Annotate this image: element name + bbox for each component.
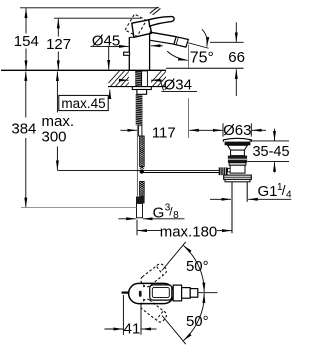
top view body capsule <box>129 283 174 303</box>
dashed lever rotated upper <box>139 262 168 288</box>
indicator slot <box>139 291 142 297</box>
pop-up rod stub (top view) <box>122 292 130 294</box>
label G 3/8 <box>119 218 136 220</box>
svg-text:max.45: max.45 <box>61 96 105 111</box>
dimension 35-45 <box>250 140 290 142</box>
faucet body right edge <box>149 25 151 71</box>
dimension 117 <box>120 129 137 131</box>
svg-text:Ø63: Ø63 <box>223 122 251 139</box>
rim reference line (66 bottom) <box>166 67 244 69</box>
svg-text:154: 154 <box>14 33 39 50</box>
rod junction dot <box>140 169 144 173</box>
svg-text:66: 66 <box>228 49 245 66</box>
hose end nut <box>136 197 145 204</box>
75 degree arc arrow upper <box>202 29 207 46</box>
deck bottom line <box>108 86 166 88</box>
reference arrow to deck <box>108 46 110 69</box>
lever (top view) <box>150 285 172 300</box>
spout axis extension <box>188 43 209 49</box>
spout bottom edge <box>150 40 174 44</box>
braided hose upper <box>140 136 145 169</box>
spout block (top view) <box>182 288 191 299</box>
svg-text:4: 4 <box>286 189 292 200</box>
deck hatching right <box>146 68 184 88</box>
lever grip (solid) <box>132 20 152 38</box>
waste locknut <box>225 179 250 181</box>
lever motion marks <box>150 7 158 13</box>
hose neck <box>139 125 142 136</box>
max.300 reference / pop-up rod upper line <box>57 169 218 171</box>
svg-text:G: G <box>153 204 165 221</box>
spout top edge <box>150 32 177 37</box>
lever grip raised (dashed) <box>125 14 147 36</box>
svg-text:max.: max. <box>42 113 75 130</box>
waste tailpipe <box>231 182 233 233</box>
svg-text:max.180: max.180 <box>160 223 218 240</box>
dimension 41 <box>122 295 124 335</box>
waste upper body <box>231 150 245 156</box>
shared arrow line 117 / diameter 63 <box>189 129 222 131</box>
extension line top of handle base <box>54 17 141 19</box>
swivel arc lower <box>184 293 205 340</box>
svg-text:41: 41 <box>124 321 141 338</box>
threaded stud through deck <box>135 71 141 87</box>
svg-text:35-45: 35-45 <box>252 144 289 160</box>
waste washer <box>224 175 252 179</box>
dimension 66 arrows <box>235 22 237 42</box>
deck hatching left <box>104 68 147 88</box>
rod joint knurled nut <box>219 167 228 175</box>
dimension 384 <box>25 72 27 208</box>
pop-up lift rod vertical <box>136 125 138 196</box>
faucet body left edge <box>128 37 130 70</box>
waste collar <box>229 163 246 165</box>
waste hex dark band <box>228 156 247 163</box>
aerator (top view) <box>190 289 198 298</box>
vertical extension from aerator <box>187 45 189 68</box>
svg-text:75°: 75° <box>190 50 214 67</box>
dimension 154 (total height) <box>25 8 27 70</box>
supply tube through deck <box>142 71 148 87</box>
centerline (top view) <box>198 292 218 294</box>
384 bottom reference line <box>21 207 136 209</box>
waste lower body <box>230 165 245 173</box>
hose end tube G3/8 <box>137 203 143 217</box>
hinge pins <box>143 286 145 288</box>
waste flange dark band <box>225 142 251 146</box>
svg-text:117: 117 <box>152 124 176 141</box>
waste plug cap <box>223 138 251 141</box>
waste taper <box>228 145 248 150</box>
svg-text:127: 127 <box>46 36 71 53</box>
lever axis extension lower <box>162 316 186 345</box>
label G1 1/4 <box>248 198 291 200</box>
lever arm <box>149 17 174 27</box>
dimension max.300 <box>56 72 58 171</box>
lever axis extension upper <box>162 242 186 271</box>
spout neck (top view) <box>173 285 181 301</box>
dimension max.180 <box>138 230 161 232</box>
svg-text:384: 384 <box>11 121 36 138</box>
mounting washer <box>132 87 151 90</box>
threaded stud lower <box>136 94 143 125</box>
aerator cap <box>174 37 188 47</box>
pop-up rod knob <box>124 52 130 55</box>
svg-text:G1: G1 <box>258 183 278 200</box>
svg-text:300: 300 <box>42 129 67 146</box>
dimension diameter 34 (hole) <box>119 79 129 81</box>
dimension 66 top reference <box>210 41 244 43</box>
75 degree arc arrow lower <box>167 51 188 60</box>
pop-up rod lower line <box>142 172 219 174</box>
dashed lever rotated lower <box>139 298 168 324</box>
svg-text:50°: 50° <box>186 258 209 275</box>
svg-text:50°: 50° <box>186 313 209 330</box>
swivel arc upper <box>184 245 205 292</box>
extension line top of lever <box>20 7 159 9</box>
rod joint boss <box>228 168 231 171</box>
svg-text:8: 8 <box>173 210 179 221</box>
mounting nut <box>137 90 147 95</box>
braided hose lower <box>140 181 145 197</box>
label max.45 boxed <box>59 95 108 110</box>
dimension 127 (height to spout) <box>57 19 59 70</box>
deck surface line <box>1 69 166 71</box>
dimension diameter 63 <box>222 123 224 136</box>
